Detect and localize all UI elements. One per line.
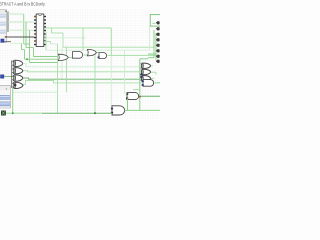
xor gate RX3 — [141, 75, 151, 80]
panel B button 1 — [0, 95, 10, 99]
input pin SUB (blue) — [1, 75, 4, 78]
wire y41.5 from chip — [44, 41, 51, 43]
panel A switch row 2 — [0, 22, 5, 25]
wire stubs into X1 — [12, 62, 15, 65]
wire xor2 out — [23, 71, 141, 72]
wire A0 — [8, 13, 24, 15]
wire xor1 out — [23, 63, 141, 66]
dark mark above panel B — [14, 84, 17, 86]
G4 input nub — [98, 56, 100, 58]
wire x12.7 vertical — [12, 88, 14, 113]
wire stubs into X3 — [12, 76, 15, 79]
wire y47 long — [63, 46, 154, 48]
canvas background with grid dots — [0, 0, 160, 120]
wire G4 out long — [108, 54, 161, 56]
wire A1 branch down — [25, 22, 27, 48]
wire RX2 out — [151, 72, 156, 75]
wire x127.5 up — [127, 98, 129, 110]
wire x111 vertical pale — [110, 55, 112, 108]
wire x21.5 down — [21, 43, 23, 49]
right chip pin column — [156, 21, 160, 63]
wire from SUB pin — [4, 76, 12, 78]
wire x63 down — [62, 33, 64, 47]
contact icon (dark square with X) — [1, 111, 5, 115]
svg-text:x: x — [6, 87, 8, 91]
wire stubs into X2 — [12, 69, 15, 72]
RX4 input nubs — [142, 80, 144, 85]
wire x149.5 vertical pale — [149, 27, 151, 51]
wire x66.5 vertical — [66, 47, 68, 92]
or gate G1 — [58, 54, 68, 60]
junction x95 bottom — [94, 112, 96, 114]
input panel A body — [0, 10, 7, 43]
wire G2 out — [84, 54, 88, 56]
wire A2 — [8, 29, 34, 31]
svg-text:SUBTRACT A and B is BCDonly.: SUBTRACT A and B is BCDonly. — [0, 1, 46, 6]
wire y57.7 stub — [148, 57, 154, 59]
wire sum0 horizontal — [44, 27, 111, 29]
error dot — [139, 96, 141, 98]
bus wire from panel A — [7, 12, 9, 33]
green box display — [150, 15, 161, 27]
wire y59.2 to gate — [25, 58, 59, 60]
wire stubs into X4 — [12, 84, 15, 87]
wire A1 y47.5 — [26, 47, 34, 49]
junction dot — [26, 58, 28, 60]
wire G6 out — [125, 109, 160, 111]
wire xor4 out — [23, 81, 142, 85]
wire x62 vertical pale — [61, 47, 63, 79]
wire RX1 out stub — [151, 65, 153, 67]
G5 input nubs — [126, 93, 128, 99]
wire y44 — [51, 43, 58, 45]
wire branch down x51.5 — [51, 28, 53, 33]
wire x57.5 vertical — [57, 44, 59, 113]
wire dark from pin A3 — [4, 41, 11, 43]
wire x46 down — [45, 32, 47, 51]
xor input nubs — [140, 74, 142, 78]
xor gate RX1 — [141, 63, 151, 68]
wire RX3 out stub — [151, 77, 155, 79]
wire bottom long — [5, 112, 112, 114]
wire G3 out — [97, 52, 100, 54]
input pin A3 (blue) — [1, 39, 4, 42]
wire A1 x33.5 down — [33, 48, 35, 57]
and gate RX4 — [143, 80, 154, 87]
panel A switch row 3 — [0, 30, 5, 33]
green tick inside box — [152, 22, 155, 24]
wire x50.5 down — [50, 42, 52, 45]
and gate G6 — [112, 106, 125, 115]
wire A3 dark — [6, 36, 35, 38]
xor gate X1 — [13, 60, 23, 66]
wire x154 vertical — [153, 30, 155, 58]
wire x24.5 down — [24, 50, 26, 60]
wire y49.5 — [22, 49, 25, 51]
orange pin dots — [34, 16, 35, 42]
wire A0 y44 — [24, 43, 30, 45]
G6 input nubs — [111, 108, 113, 114]
wire G1 out — [68, 56, 72, 58]
bus to xor gates — [11, 61, 13, 89]
wire y33 — [52, 32, 64, 34]
wire y92 horizontal — [13, 91, 58, 93]
and gate G4 — [99, 53, 107, 59]
wire y62.5 to x57.5 — [30, 62, 58, 64]
xor gate X4 — [13, 82, 23, 88]
xor gate X2 — [13, 68, 23, 74]
wire A1 — [8, 21, 34, 23]
wire y58.8 stub — [140, 58, 148, 60]
wire A0 branch down — [23, 14, 25, 44]
wire y56.5 to G1 — [34, 56, 59, 58]
wire x139.8 vertical — [139, 59, 141, 111]
wire sum1 pale — [44, 37, 86, 39]
wire x83 vertical — [82, 28, 84, 50]
wire y89.6 stub — [133, 89, 140, 91]
wire G5 out — [140, 95, 161, 97]
wire A2 branch down — [29, 30, 31, 62]
wire x95 vertical — [94, 55, 96, 112]
IC chip U1 7483 adder — [34, 14, 46, 47]
wire x156 vertical — [155, 33, 157, 61]
or gate G3 — [87, 49, 96, 55]
wire y50 mid long — [46, 49, 150, 51]
panel B button 2 — [0, 102, 10, 106]
wire RX4 out — [155, 82, 161, 84]
wire xor3 out — [23, 78, 141, 79]
panel A corner tick — [5, 10, 7, 12]
wire x124.5 vertical — [124, 50, 126, 94]
wire stub chip pin to x46 — [44, 31, 46, 33]
and gate G5 — [127, 93, 139, 100]
caption text SUBTRACT A and B is BCD only — [0, 1, 46, 6]
panel B body — [0, 86, 11, 108]
panel A switch row 1 — [0, 14, 5, 17]
wire pale y43 — [11, 42, 22, 44]
junction bottom — [12, 112, 14, 114]
wire into G5 top — [125, 93, 128, 95]
wire x111 vertical bright — [110, 28, 112, 55]
wire y54 corner — [148, 53, 156, 55]
xor gate X3 — [13, 75, 23, 81]
and gate G2 — [73, 52, 83, 59]
xor gate RX2 — [141, 69, 151, 74]
maroon dot A3 — [5, 36, 7, 38]
